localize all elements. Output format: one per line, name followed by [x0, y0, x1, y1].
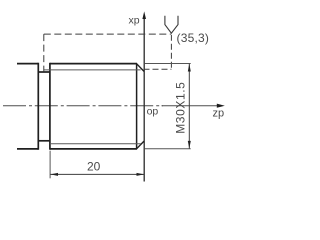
thread minor diameter bottom (thin) [50, 143, 141, 145]
xp axis [143, 19, 145, 182]
tool path dashed top segment [44, 33, 171, 35]
chamfer edge line [136, 63, 138, 149]
tool path dashed left vertical [43, 34, 45, 71]
dimension 20 dimension line [50, 173, 144, 175]
svg-text:xp: xp [129, 15, 140, 27]
svg-text:zp: zp [213, 107, 225, 119]
collar right face [37, 63, 39, 150]
svg-text:(35,3): (35,3) [177, 31, 210, 45]
zp axis arrowhead [217, 104, 225, 108]
svg-text:20: 20 [87, 160, 101, 174]
thread major diameter top edge [50, 63, 137, 65]
collar top edge [17, 63, 38, 65]
thread major diameter bottom edge [50, 148, 137, 150]
threading tool symbol [165, 16, 178, 33]
thread minor diameter top (thin) [44, 69, 141, 71]
dimension M30X1.5 dimension line [188, 64, 190, 149]
svg-text:op: op [147, 105, 159, 117]
dimension M30X1.5 top arrowhead [188, 64, 191, 72]
thread section left face [49, 63, 51, 150]
dimension M30X1.5 bottom extension line [145, 148, 191, 150]
chamfer bottom diagonal [137, 141, 144, 149]
dimension 20 left arrowhead [50, 173, 58, 176]
dimension M30X1.5 bottom arrowhead [188, 141, 191, 149]
dimension M30X1.5 top extension line [145, 63, 191, 65]
undercut neck top [38, 71, 50, 73]
dimension 20 right arrowhead [137, 173, 145, 176]
centerline / zp axis [3, 105, 163, 107]
undercut neck bottom [38, 140, 50, 142]
xp axis arrowhead [142, 11, 146, 19]
chamfer top diagonal [137, 64, 144, 72]
dimension 20 left extension line [49, 151, 51, 179]
collar bottom edge [17, 148, 38, 150]
svg-text:M30X1.5: M30X1.5 [174, 82, 188, 134]
tool path dashed bottom segment [144, 68, 172, 70]
tool path dashed right vertical [170, 35, 172, 70]
